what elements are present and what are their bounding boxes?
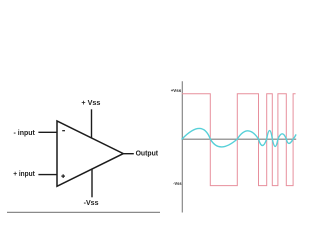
- svg-text:-Vss: -Vss: [173, 181, 182, 187]
- svg-text:+Vss: +Vss: [171, 88, 182, 94]
- svg-text:+ input: + input: [13, 169, 35, 178]
- svg-text:- input: - input: [14, 128, 36, 137]
- svg-text:-Vss: -Vss: [84, 198, 99, 207]
- svg-text:Output: Output: [136, 149, 159, 158]
- svg-text:+ Vss: + Vss: [81, 98, 100, 107]
